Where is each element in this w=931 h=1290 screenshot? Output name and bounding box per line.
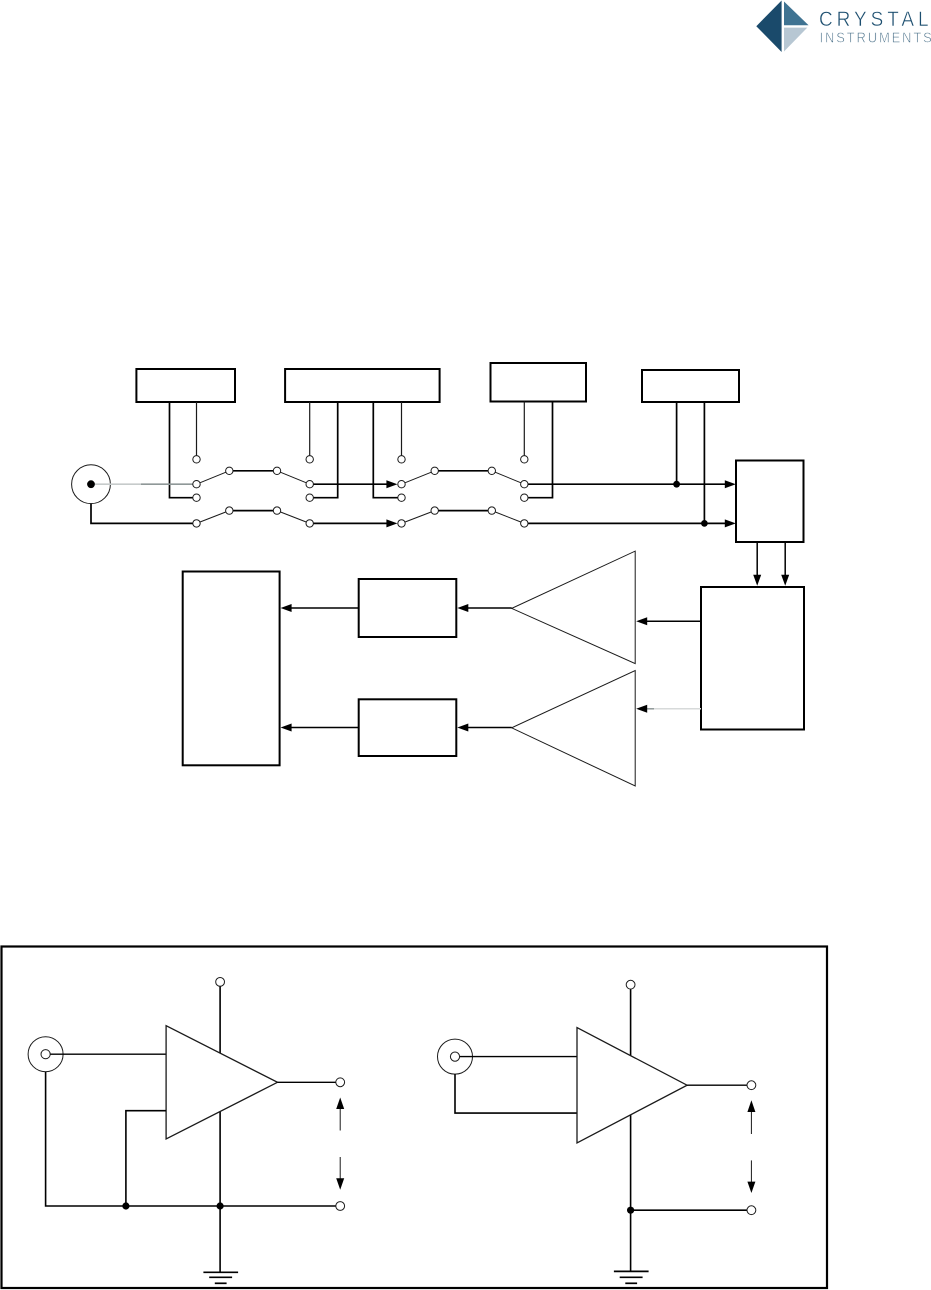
wire common bottom right circuit [631, 1209, 748, 1211]
wire: B4 pin1 down to row1 junction [676, 402, 678, 484]
svg-text:INSTRUMENTS: INSTRUMENTS [820, 29, 931, 46]
measure arrow up (right) [750, 1112, 752, 1135]
wire row2 bank3-bank4 [435, 510, 492, 512]
switch arm S4a row1 [492, 471, 525, 484]
contact row2 Q4 [488, 507, 495, 514]
block box B8 (lower filter) [359, 699, 457, 756]
contact row1 Q2 [273, 467, 280, 474]
contact row1 Q1 [226, 467, 233, 474]
amplifier A3 (left) [166, 1026, 277, 1139]
block box B9 (right tall) [701, 587, 804, 730]
contact row1 Q3 [431, 467, 438, 474]
input connector J1 (circle with dot) [72, 465, 111, 504]
switch arm S1a row1 [197, 471, 230, 484]
wire row1 bank1-bank2 [229, 470, 277, 472]
wire A4 output [687, 1084, 747, 1086]
wire A1 output to B7 [466, 607, 512, 609]
contact row2 Q1 [226, 507, 233, 514]
contact T1 upper [193, 456, 200, 463]
logo diamond top-right facet [784, 2, 809, 26]
block box B1 (top left) [136, 369, 235, 402]
contact T2 lower [306, 494, 313, 501]
contact row1 Q4 [488, 467, 495, 474]
wire row2 bank1-bank2 [229, 510, 277, 512]
wire feedback A3 [126, 1111, 166, 1206]
wire B9 to A2 input (grayed) [647, 708, 654, 710]
wire power line A3 down to ground [219, 986, 221, 1271]
wire A3 output [278, 1081, 336, 1083]
contact row1 P1 [193, 481, 200, 488]
wire: B3 pin2 down to lower contact [528, 402, 552, 498]
contact row1 P3 [398, 481, 405, 488]
contact row1 P2 [306, 481, 313, 488]
wire: B1 pin2 down to upper contact [196, 402, 198, 455]
junction row1 / B4 pin1 [673, 481, 680, 488]
contact T4 upper [521, 456, 528, 463]
wire: grayed input row1 (light) [95, 483, 141, 485]
wire row2 arrow bank2 [310, 522, 390, 524]
contact row2 P2 [306, 520, 313, 527]
switch arm S3b row2 [402, 511, 435, 524]
wire B5 down-arrow 1 to B9 [756, 542, 758, 575]
frame border [2, 947, 828, 1289]
wire B5 down-arrow 2 to B9 [784, 542, 786, 575]
wire: B2 pin1 down to upper contact [309, 402, 311, 455]
block box B7 (upper filter) [359, 579, 457, 637]
wire row1 bank3-bank4 [435, 470, 492, 472]
block box B3 [491, 363, 587, 402]
amplifier A4 (right) [577, 1028, 687, 1143]
wire J3 to amplifier A4 + input [460, 1056, 577, 1058]
wire: B2 pin4 down to upper contact [401, 402, 403, 455]
wire row1 to B5 [524, 483, 728, 485]
wire row1 arrow bank2 [310, 483, 390, 485]
output terminal circle A4 [747, 1081, 756, 1090]
logo diamond left facet [756, 1, 781, 53]
common terminal circle A4 [747, 1206, 756, 1215]
contact row2 Q2 [273, 507, 280, 514]
junction: power line to common [217, 1202, 224, 1209]
wire: B1 pin1 down to lower contact [170, 402, 193, 498]
wire: grayed input row1 (dark) [141, 483, 193, 485]
switch arm S3a row1 [402, 471, 435, 484]
ground symbol right [614, 1270, 649, 1272]
contact row2 Q3 [431, 507, 438, 514]
contact T2 upper [306, 456, 313, 463]
wire: B2 pin2 down to lower contact [314, 402, 338, 498]
connector J3 (BNC right) [438, 1039, 473, 1074]
wire B8 to B6 [289, 727, 359, 729]
wire: input down to row2 [91, 504, 193, 524]
power terminal circle A3 [216, 978, 225, 987]
junction: feedback to common [122, 1202, 129, 1209]
wire row2 to B5 [524, 522, 728, 524]
block box B4 [642, 370, 739, 402]
output terminal circle A3 [336, 1078, 345, 1087]
contact row2 P1 [193, 520, 200, 527]
wire A2 output to B8 [466, 727, 512, 729]
amplifier A2 (lower triangle) [512, 671, 636, 787]
connector J2 (BNC left) [28, 1037, 63, 1072]
ground symbol left [203, 1271, 238, 1273]
measure arrow up (left) [339, 1108, 341, 1131]
switch arm S2a row1 [277, 471, 310, 484]
wire B9 to A1 input [645, 620, 701, 622]
contact T1 lower [193, 494, 200, 501]
wire J2 to amplifier A3 + input [50, 1053, 166, 1055]
wire J2 shield down to common [46, 1072, 125, 1206]
measure arrow down (right) [750, 1160, 752, 1182]
contact row2 P3 [398, 520, 405, 527]
wire power line A4 down to ground [630, 989, 632, 1271]
wire: B2 pin3 down to lower contact [373, 402, 397, 498]
contact T4 lower [521, 494, 528, 501]
power terminal circle A4 [626, 980, 635, 989]
contact T3 lower [398, 494, 405, 501]
contact T3 upper [398, 456, 405, 463]
wire: B4 pin2 down to row2 junction [703, 402, 705, 523]
switch arm S4b row2 [492, 511, 525, 524]
wire common bottom left circuit [125, 1205, 336, 1207]
wire J3 shield to A4 - input [455, 1074, 577, 1113]
contact row2 P4 [521, 520, 528, 527]
junction row2 / B4 pin2 [701, 520, 708, 527]
junction: power line to common right [627, 1207, 634, 1214]
contact row1 P4 [521, 481, 528, 488]
measure arrow down (left) [339, 1157, 341, 1179]
wire: B3 pin1 down to upper contact [523, 402, 525, 456]
switch arm S2b row2 [277, 511, 310, 524]
common terminal circle A3 [336, 1202, 345, 1211]
block box B2 [285, 369, 440, 402]
switch arm S1b row2 [197, 511, 230, 524]
logo diamond bottom-right facet [784, 28, 807, 52]
block box B6 (tall left) [183, 572, 280, 766]
wire B7 to B6 [289, 607, 359, 609]
amplifier A1 (upper triangle) [512, 551, 636, 664]
block box B5 (switch output) [736, 461, 804, 543]
